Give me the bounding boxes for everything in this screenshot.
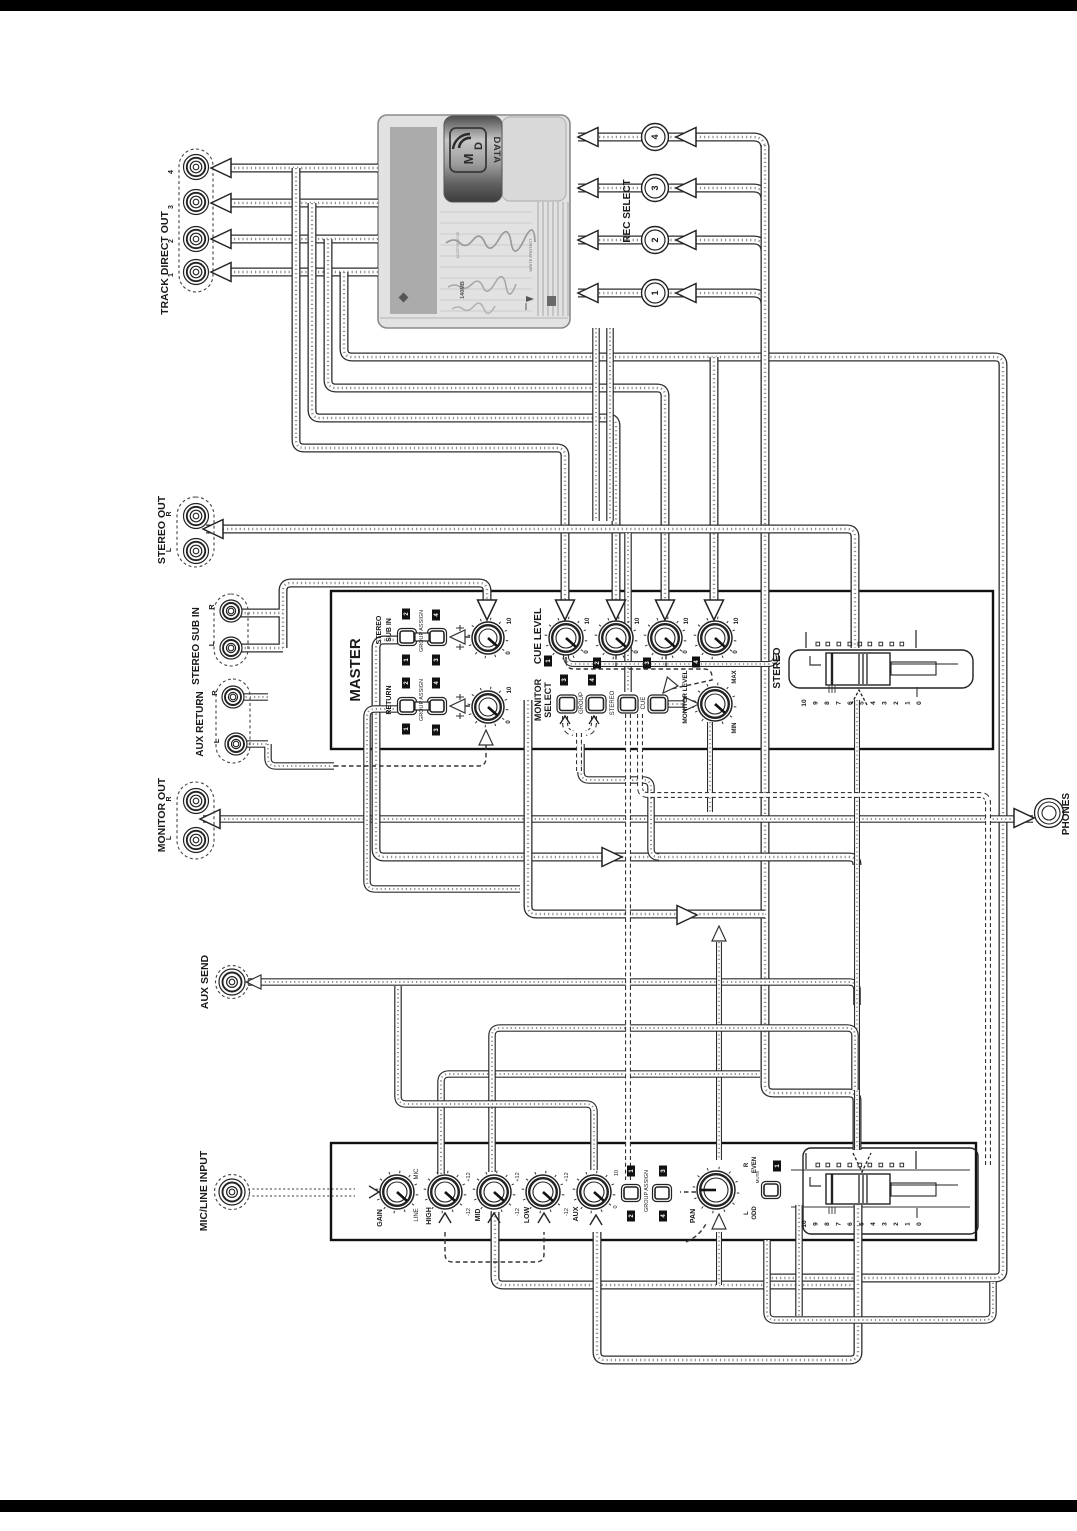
jack MONITOR OUT R bbox=[184, 789, 209, 814]
wire vertical A to y915 run bbox=[528, 700, 765, 914]
svg-text:+12: +12 bbox=[466, 1172, 472, 1181]
label LINE bbox=[414, 1208, 420, 1221]
tag sub-in assign 3 bbox=[432, 655, 440, 666]
arrow into stereo out jacks bbox=[203, 520, 223, 539]
stereo fader sub-panel bbox=[789, 650, 973, 688]
dashed arrow stub into sub-in assign button bbox=[452, 636, 470, 638]
dashed aux return feed bbox=[334, 734, 486, 766]
jack AUX SEND bbox=[219, 969, 245, 995]
svg-text:MUTE: MUTE bbox=[755, 1171, 760, 1184]
svg-text:L: L bbox=[212, 738, 221, 743]
knob cue level 3 bbox=[644, 617, 687, 660]
label pan EVEN bbox=[752, 1157, 758, 1173]
jack STEREO SUB IN R bbox=[220, 600, 242, 622]
label cue4 0 bbox=[733, 650, 739, 654]
knob channel mid eq bbox=[473, 1171, 516, 1214]
label cue2 0 bbox=[634, 650, 640, 654]
jack STEREO SUB IN L bbox=[220, 637, 242, 659]
label -12 at 445 bbox=[466, 1208, 472, 1216]
svg-text:1: 1 bbox=[650, 290, 660, 295]
svg-text:3: 3 bbox=[650, 185, 660, 190]
svg-text:4: 4 bbox=[650, 134, 660, 139]
svg-text:10: 10 bbox=[684, 617, 690, 624]
svg-text:WRITE PROTECT: WRITE PROTECT bbox=[528, 238, 533, 272]
arrow rec select 2 into disc bbox=[578, 231, 598, 250]
label sub-in knob 0 bbox=[506, 651, 512, 655]
svg-text:10: 10 bbox=[801, 1220, 808, 1228]
label pan L ODD bbox=[744, 1211, 750, 1215]
svg-text:STEREO: STEREO bbox=[376, 615, 383, 644]
wire stereo tap to monitor select bbox=[624, 533, 632, 692]
svg-text:10: 10 bbox=[734, 617, 740, 624]
tag return assign 4 bbox=[432, 678, 440, 689]
jack MONITOR OUT L bbox=[184, 828, 209, 853]
tag monitor select 3 bbox=[560, 675, 568, 686]
svg-text:1: 1 bbox=[168, 273, 175, 277]
label monitor max bbox=[732, 670, 738, 683]
dashed outline stereo out group bbox=[177, 497, 214, 567]
label aux return R bbox=[210, 690, 219, 696]
svg-text:+12: +12 bbox=[564, 1172, 570, 1181]
label sub in R bbox=[207, 604, 216, 610]
tag return assign 2 bbox=[402, 678, 410, 689]
tag return assign 3 bbox=[432, 725, 440, 736]
svg-text:LINE: LINE bbox=[414, 1208, 420, 1221]
wire stereo bus vertical x857 bbox=[854, 700, 860, 1150]
label +12 at 543 bbox=[564, 1172, 570, 1181]
label cue3 10 bbox=[684, 617, 690, 624]
wire channel bottom run b3 bbox=[767, 1240, 993, 1320]
label TRACK DIRECT OUT bbox=[159, 211, 171, 315]
svg-text:PAN: PAN bbox=[690, 1209, 697, 1223]
label stereo out R bbox=[166, 511, 173, 516]
dashed cue bus under cue knobs bbox=[566, 655, 712, 689]
arrow up into y915 from pan riser bbox=[712, 926, 726, 941]
label cue1 10 bbox=[585, 617, 591, 624]
wire branch down to cue4 bbox=[710, 357, 719, 604]
arrow rec select 2 mid bbox=[676, 231, 696, 250]
svg-text:1: 1 bbox=[905, 701, 912, 705]
label AUX SEND bbox=[199, 954, 211, 1009]
svg-text:8: 8 bbox=[824, 1222, 831, 1226]
button monitor select stereo bbox=[586, 695, 606, 713]
svg-text:LOW: LOW bbox=[524, 1206, 531, 1223]
label monitor select group bbox=[579, 692, 585, 714]
node rec select 4 bbox=[642, 124, 669, 151]
svg-text:RETURN: RETURN bbox=[386, 685, 393, 714]
svg-text:4: 4 bbox=[168, 170, 175, 174]
label track 1 bbox=[168, 273, 175, 277]
knob monitor level bbox=[694, 683, 737, 726]
arrow rec select 1 mid bbox=[676, 284, 696, 303]
arrow dashed into return assign button bbox=[450, 699, 465, 713]
arrow down into cue2 knob bbox=[607, 600, 626, 620]
wire monitor level drop bbox=[707, 722, 713, 812]
node rec select 3 bbox=[642, 175, 669, 202]
label master stereo sub in line1 bbox=[376, 615, 383, 644]
label aux return L bbox=[212, 738, 221, 743]
label GAIN bbox=[377, 1209, 384, 1227]
dashed monitor bus branch right bbox=[640, 714, 988, 1165]
tag cue level 4 bbox=[692, 657, 700, 668]
knob channel low eq bbox=[522, 1171, 565, 1214]
svg-text:4: 4 bbox=[870, 701, 877, 705]
svg-text:10: 10 bbox=[614, 1170, 620, 1176]
wire track direct out 4 shaft bbox=[226, 164, 378, 173]
dashed monitor bus vertical 1 bbox=[625, 714, 631, 1180]
knob channel gain bbox=[376, 1171, 419, 1214]
arrow into track direct out 1 bbox=[211, 263, 231, 282]
label group assign (channel) bbox=[644, 1170, 650, 1212]
svg-text:D: D bbox=[473, 142, 485, 150]
jack TRACK DIRECT OUT 1 bbox=[184, 260, 209, 285]
label track 3 bbox=[168, 205, 175, 209]
svg-text:MAX: MAX bbox=[732, 670, 738, 683]
svg-text:GAIN: GAIN bbox=[377, 1209, 384, 1227]
svg-text:3: 3 bbox=[882, 1222, 889, 1226]
label PAN bbox=[690, 1209, 697, 1223]
svg-text:L: L bbox=[166, 547, 173, 552]
wire aux return jacks bbox=[233, 697, 334, 766]
wire stereo out line bbox=[206, 529, 855, 648]
svg-text:2: 2 bbox=[893, 1222, 900, 1226]
button sub-in group assign A bbox=[398, 629, 417, 646]
label MONITOR OUT bbox=[156, 777, 168, 852]
top page border bar bbox=[0, 0, 1077, 11]
svg-text:10: 10 bbox=[635, 617, 641, 624]
wire mid eq loop bottom bbox=[495, 1212, 854, 1285]
wire shaft1 drop long run and right loop bbox=[344, 272, 1003, 1278]
button return group assign A bbox=[398, 698, 417, 715]
wire shaft3 drop to cue2 bbox=[312, 203, 616, 604]
label MIC/LINE INPUT bbox=[198, 1150, 210, 1231]
label pan ODD bbox=[752, 1206, 758, 1220]
tag channel mute bbox=[773, 1161, 781, 1172]
wire group out run y857 bbox=[376, 640, 857, 865]
svg-text:MID: MID bbox=[475, 1209, 482, 1222]
svg-text:R: R bbox=[166, 796, 173, 801]
dashed monitor select Y into group/stereo buttons bbox=[565, 716, 594, 772]
arrow open up into mid bbox=[488, 1213, 500, 1223]
svg-text:STEREO: STEREO bbox=[772, 647, 783, 688]
svg-text:MIN: MIN bbox=[732, 723, 738, 734]
tag channel assign 2 bbox=[627, 1211, 635, 1222]
svg-text:SELECT: SELECT bbox=[543, 682, 553, 718]
button monitor select group bbox=[557, 695, 577, 713]
svg-text:R: R bbox=[207, 604, 216, 610]
wire disc bottom tap right bbox=[606, 328, 614, 521]
knob cue level 4 bbox=[694, 617, 737, 660]
arrow dashed into sub-in assign button bbox=[450, 630, 465, 644]
label STEREO SUB IN (jacks) bbox=[191, 607, 202, 685]
svg-text:MONITOR: MONITOR bbox=[533, 678, 543, 721]
dashed outline aux return group bbox=[216, 679, 250, 763]
svg-text:AUX SEND: AUX SEND bbox=[199, 954, 211, 1009]
wire pan lower drop bbox=[716, 1232, 722, 1285]
label MID bbox=[475, 1209, 482, 1222]
svg-text:GROUP ASSIGN: GROUP ASSIGN bbox=[419, 679, 425, 721]
connector return buttons bbox=[415, 702, 429, 710]
wire aux knob bottom long run bbox=[597, 1205, 858, 1360]
label MONITOR LEVEL bbox=[682, 670, 689, 723]
arrow open into gain bbox=[369, 1186, 379, 1198]
label monitor out R bbox=[166, 796, 173, 801]
label group assign (sub-in) bbox=[419, 610, 425, 652]
fader master stereo bbox=[801, 630, 958, 707]
label -12 at 543 bbox=[564, 1208, 570, 1216]
svg-text:ODD: ODD bbox=[752, 1206, 758, 1220]
label return knob 10 bbox=[507, 686, 513, 693]
arrow down into cue4 knob bbox=[705, 600, 724, 620]
tag cue level 2 bbox=[593, 658, 601, 669]
label pan R EVEN bbox=[744, 1162, 750, 1167]
svg-text:MIC/LINE INPUT: MIC/LINE INPUT bbox=[198, 1150, 210, 1231]
svg-text:10: 10 bbox=[507, 686, 513, 693]
node rec select 2 bbox=[642, 227, 669, 254]
knob cue level 2 bbox=[595, 617, 638, 660]
svg-text:3: 3 bbox=[168, 205, 175, 209]
label -12 at 494 bbox=[515, 1208, 521, 1216]
label monitor select stereo bbox=[610, 690, 616, 715]
wire disc bottom tap left bbox=[592, 328, 600, 521]
arrow into phones jack bbox=[1014, 809, 1034, 828]
svg-text:MONITOR LEVEL: MONITOR LEVEL bbox=[682, 670, 689, 723]
jack AUX RETURN R bbox=[222, 686, 244, 708]
arrow open up into high bbox=[439, 1213, 451, 1223]
svg-text:SUB IN: SUB IN bbox=[386, 618, 393, 642]
arrow dashed down into monitor cue button bbox=[658, 677, 678, 697]
svg-text:GROUP ASSIGN: GROUP ASSIGN bbox=[644, 1170, 650, 1212]
channel section panel box bbox=[331, 1143, 976, 1240]
label HIGH bbox=[426, 1207, 433, 1225]
jack AUX RETURN L bbox=[225, 733, 247, 755]
dashed outline mic/line input bbox=[215, 1175, 250, 1210]
arrow right on group bus bbox=[602, 848, 622, 867]
label +12 at 445 bbox=[466, 1172, 472, 1181]
svg-text:R: R bbox=[744, 1162, 750, 1167]
label cue1 0 bbox=[584, 650, 590, 654]
label MONITOR SELECT line2 bbox=[543, 682, 553, 718]
svg-text:PHONES: PHONES bbox=[1061, 793, 1072, 836]
fader channel bbox=[801, 1151, 958, 1228]
button monitor select aux bbox=[648, 695, 668, 713]
jack PHONES bbox=[1035, 799, 1064, 828]
label MIC bbox=[414, 1168, 420, 1180]
label aux 10 bbox=[614, 1170, 620, 1176]
knob channel aux bbox=[573, 1171, 616, 1214]
label REC SELECT bbox=[622, 179, 633, 242]
label monitor min bbox=[732, 723, 738, 734]
arrow right on y915 bus bbox=[677, 906, 697, 925]
arrow rec select 1 into disc bbox=[578, 284, 598, 303]
arrow down into cue3 knob bbox=[656, 600, 675, 620]
svg-text:MASTER: MASTER bbox=[347, 638, 364, 702]
svg-text:AUX: AUX bbox=[573, 1206, 580, 1221]
jack TRACK DIRECT OUT 4 bbox=[184, 155, 209, 180]
svg-text:3: 3 bbox=[882, 701, 889, 705]
arrow up into stereo fader bbox=[851, 690, 867, 705]
svg-text:10: 10 bbox=[801, 699, 808, 707]
wire mute drop run bbox=[795, 1205, 803, 1316]
wire rec select 3 shaft bbox=[578, 188, 765, 200]
svg-text:2: 2 bbox=[893, 701, 900, 705]
arrow rec select 4 into disc bbox=[578, 128, 598, 147]
svg-text:6: 6 bbox=[847, 701, 854, 705]
arrow open up into low bbox=[538, 1213, 550, 1223]
arrow into track direct out 2 bbox=[211, 230, 231, 249]
svg-text:REC SELECT: REC SELECT bbox=[622, 179, 633, 242]
svg-text:5: 5 bbox=[859, 701, 866, 705]
wire shaft4 drop to cue1 bbox=[296, 168, 565, 604]
arrow rec select 3 mid bbox=[676, 179, 696, 198]
svg-text:5: 5 bbox=[859, 1222, 866, 1226]
jack TRACK DIRECT OUT 3 bbox=[184, 190, 209, 215]
label MASTER bbox=[347, 638, 364, 702]
arrow rec select 3 into disc bbox=[578, 179, 598, 198]
label cue4 10 bbox=[734, 617, 740, 624]
arrow rec select 4 mid bbox=[676, 128, 696, 147]
button channel mute bbox=[762, 1182, 781, 1199]
knob master return bbox=[468, 687, 509, 728]
dashed arrow into channel group button bbox=[680, 1191, 696, 1193]
label +12 at 494 bbox=[515, 1172, 521, 1181]
button channel group assign B bbox=[653, 1185, 672, 1202]
svg-text:STEREO: STEREO bbox=[610, 690, 616, 715]
button channel group assign A bbox=[622, 1185, 641, 1202]
label RETURN bbox=[386, 685, 393, 714]
jack TRACK DIRECT OUT 2 bbox=[184, 227, 209, 252]
wire stereo sub in jacks to knob bbox=[232, 583, 487, 648]
tag return assign 1 bbox=[402, 724, 410, 735]
svg-text:CUE: CUE bbox=[641, 697, 647, 710]
wire track direct out 3 shaft bbox=[226, 199, 378, 208]
node rec select 1 bbox=[642, 280, 669, 307]
label cue3 0 bbox=[683, 650, 689, 654]
svg-text:9: 9 bbox=[813, 1222, 820, 1226]
tag channel assign 4 bbox=[659, 1211, 667, 1222]
svg-text:STEREO OUT: STEREO OUT bbox=[156, 495, 168, 564]
wire mid riser run bbox=[492, 1028, 855, 1172]
svg-text:R: R bbox=[210, 690, 219, 696]
svg-text:GROUP: GROUP bbox=[579, 692, 585, 714]
svg-text:AUX RETURN: AUX RETURN bbox=[195, 691, 206, 757]
svg-text:+12: +12 bbox=[515, 1172, 521, 1181]
tag monitor select 4 bbox=[588, 675, 596, 686]
dashed outline track direct out group bbox=[179, 149, 213, 292]
knob channel high eq bbox=[424, 1171, 467, 1214]
label track 2 bbox=[168, 239, 175, 243]
arrow into track direct out 3 bbox=[211, 194, 231, 213]
wire monitor out to phones line bbox=[203, 815, 1033, 823]
dashed outline stereo sub in group bbox=[214, 594, 248, 666]
jack STEREO OUT R bbox=[184, 504, 209, 529]
label PHONES bbox=[1061, 793, 1072, 836]
label mute bbox=[755, 1171, 760, 1184]
dashed arrow stub into return assign button bbox=[452, 705, 470, 707]
button monitor select cue bbox=[618, 695, 638, 713]
label master stereo sub in line2 bbox=[386, 618, 393, 642]
button sub-in group assign B bbox=[428, 629, 447, 646]
wire rec select bus vertical bbox=[765, 145, 857, 1150]
arrow up into pan knob bbox=[712, 1214, 726, 1229]
wire shaft2 drop to cue3 bbox=[328, 239, 665, 604]
jack MIC/LINE INPUT bbox=[219, 1179, 245, 1205]
label MONITOR SELECT line1 bbox=[533, 678, 543, 721]
svg-text:R: R bbox=[166, 511, 173, 516]
knob channel pan bbox=[693, 1167, 740, 1214]
svg-text:10: 10 bbox=[585, 617, 591, 624]
svg-text:9: 9 bbox=[813, 701, 820, 705]
dashed arrow up into pan bbox=[686, 1222, 707, 1242]
svg-text:STEREO SUB IN: STEREO SUB IN bbox=[191, 607, 202, 685]
label monitor out L bbox=[166, 835, 173, 840]
wire aux send line bbox=[248, 982, 857, 1005]
dashed outline monitor out group bbox=[177, 782, 214, 859]
arrow down into channel fader bbox=[853, 1153, 871, 1172]
label sub in L bbox=[207, 641, 216, 646]
label track 4 bbox=[168, 170, 175, 174]
MD DATA disc (recorder media) bbox=[378, 115, 570, 328]
arrow dashed up into monitor group button bbox=[560, 716, 570, 724]
connector sub-in buttons bbox=[415, 633, 429, 641]
svg-text:2: 2 bbox=[650, 237, 660, 242]
label cue2 10 bbox=[635, 617, 641, 624]
label monitor select cue bbox=[641, 697, 647, 710]
svg-text:7: 7 bbox=[836, 701, 843, 705]
wire return row exit to bus bbox=[367, 709, 520, 889]
wire track direct out 2 shaft bbox=[226, 235, 378, 244]
svg-text:DATA: DATA bbox=[491, 137, 502, 164]
dotted gain shaft texture bbox=[248, 1189, 355, 1196]
label LOW bbox=[524, 1206, 531, 1223]
tag sub-in assign 2 bbox=[402, 609, 410, 620]
svg-text:6: 6 bbox=[847, 1222, 854, 1226]
tag sub-in assign 1 bbox=[402, 655, 410, 666]
knob cue level 1 bbox=[545, 617, 588, 660]
svg-text:MIC: MIC bbox=[414, 1168, 420, 1180]
svg-text:10: 10 bbox=[507, 617, 513, 624]
arrow right monitor select to level bbox=[684, 697, 699, 711]
arrow down into cue1 knob bbox=[556, 600, 575, 620]
svg-text:-12: -12 bbox=[515, 1208, 521, 1216]
arrow dashed up into monitor stereo button bbox=[589, 716, 599, 724]
junction marks L/R merge bbox=[456, 625, 464, 719]
label group assign (return) bbox=[419, 679, 425, 721]
wire monitor select feed down bbox=[581, 744, 659, 857]
svg-text:-12: -12 bbox=[466, 1208, 472, 1216]
wire monitor select to level knob bbox=[668, 700, 694, 708]
arrow down into sub-in knob bbox=[478, 600, 497, 620]
tag channel assign 3 bbox=[659, 1166, 667, 1177]
jack STEREO OUT L bbox=[184, 539, 209, 564]
svg-text:0: 0 bbox=[613, 1205, 619, 1208]
dashed outline aux send bbox=[216, 966, 249, 999]
label STEREO OUT bbox=[156, 495, 168, 564]
wire rec select 2 shaft bbox=[578, 240, 765, 252]
label AUX RETURN bbox=[195, 691, 206, 757]
svg-text:8: 8 bbox=[824, 701, 831, 705]
wire rec select 1 shaft bbox=[578, 293, 765, 305]
knob master stereo sub in bbox=[468, 618, 509, 659]
tag cue level 1 bbox=[544, 656, 552, 667]
svg-text:1: 1 bbox=[905, 1222, 912, 1226]
tag channel assign 1 bbox=[627, 1166, 635, 1177]
wire pan riser bbox=[716, 942, 722, 1160]
arrow into monitor out jacks bbox=[200, 810, 220, 829]
tag cue level 3 bbox=[643, 658, 651, 669]
svg-text:HIGH: HIGH bbox=[426, 1207, 433, 1225]
svg-text:ACCEPTABLE MD: ACCEPTABLE MD bbox=[456, 231, 460, 258]
